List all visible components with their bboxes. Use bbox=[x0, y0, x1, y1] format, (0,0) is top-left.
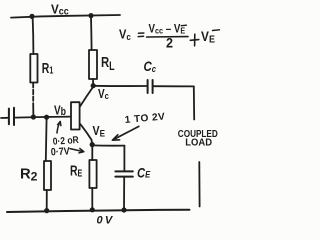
annotation arrow (1 TO 2V to VE node) bbox=[113, 126, 138, 139]
resistor RE bbox=[89, 160, 96, 188]
capacitor Cc left plate bbox=[147, 80, 149, 93]
wire load vertical lower segment bbox=[198, 162, 200, 207]
wire RE bottom to 0V rail bbox=[91, 188, 93, 210]
resistor RL bbox=[89, 50, 97, 79]
svg-text:Vcc – VE: Vcc – VE bbox=[149, 23, 186, 36]
wire CE bottom plate to 0V rail bbox=[123, 177, 125, 210]
svg-text:Vc: Vc bbox=[98, 88, 109, 101]
node base junction dot at R2 branch bbox=[44, 115, 49, 120]
node Vcc junction dot at R1 bbox=[29, 14, 34, 19]
annotation formula: plus sign bbox=[190, 34, 199, 46]
wire Vcc dot to R1 top bbox=[32, 16, 35, 54]
capacitor C-in right plate bbox=[13, 108, 15, 125]
wire load vertical upper segment bbox=[193, 86, 195, 119]
wire Vc node right to Cc bbox=[94, 85, 147, 87]
node 0V junction dot at R2 bbox=[44, 208, 49, 213]
node 0V junction dot at RE bbox=[90, 207, 95, 212]
formula fraction bar bbox=[147, 36, 188, 38]
resistor R1 bbox=[30, 54, 37, 83]
node Vc junction dot bbox=[91, 83, 96, 88]
wire VE dot right to CE branch corner bbox=[93, 144, 125, 146]
wire R1 bottom to base rail (broken/dashed look) bbox=[32, 83, 34, 104]
transistor Q1 collector lead bbox=[80, 87, 93, 107]
annotation arrow right (0.7V to emitter) bbox=[70, 149, 83, 152]
capacitor CE top plate bbox=[115, 170, 132, 172]
capacitor C-in left plate bbox=[8, 109, 10, 125]
node base junction dot at R1 branch bbox=[31, 114, 36, 119]
annotation arrow up (0.2/0.7 V to base) bbox=[57, 122, 60, 134]
wire R2 bottom to 0V rail bbox=[46, 190, 48, 211]
svg-text:2: 2 bbox=[166, 35, 173, 51]
node Vcc junction dot at RL bbox=[88, 13, 93, 18]
svg-text:LOAD: LOAD bbox=[185, 137, 212, 149]
resistor R2 bbox=[44, 161, 51, 190]
wire Cc right plate to load corner bbox=[153, 85, 193, 87]
svg-text:R2: R2 bbox=[20, 167, 38, 184]
annotation formula: equals sign bbox=[138, 33, 144, 37]
capacitor CE bottom plate bbox=[115, 176, 132, 178]
transistor Q1 body bar bbox=[71, 102, 80, 129]
svg-text:Vb: Vb bbox=[54, 104, 66, 118]
svg-text:0V: 0V bbox=[97, 215, 115, 226]
wire 0V rail (bottom) bbox=[7, 210, 190, 212]
transistor Q1 emitter lead bbox=[80, 124, 92, 144]
capacitor Cc right plate bbox=[152, 80, 154, 93]
wire R2 branch: base dot down to R2 top bbox=[45, 117, 48, 161]
annotation formula: overbar on numerator E bbox=[181, 24, 186, 27]
wire CE branch corner down to CE top plate bbox=[123, 146, 125, 171]
node VE junction dot bbox=[90, 142, 95, 147]
node 0V junction dot at CE bbox=[121, 207, 126, 212]
wire base rail: cap to transistor base bbox=[15, 117, 71, 118]
annotation formula: overbar on VE term bbox=[213, 29, 220, 32]
wire input stub bbox=[1, 117, 8, 119]
wire VE dot to RE top bbox=[91, 145, 93, 160]
svg-text:0·7V: 0·7V bbox=[51, 146, 71, 159]
wire RL bottom to Vc node bbox=[92, 79, 94, 86]
wire Vcc dot to RL top bbox=[90, 16, 93, 50]
wire Vcc rail (top) bbox=[11, 15, 120, 18]
